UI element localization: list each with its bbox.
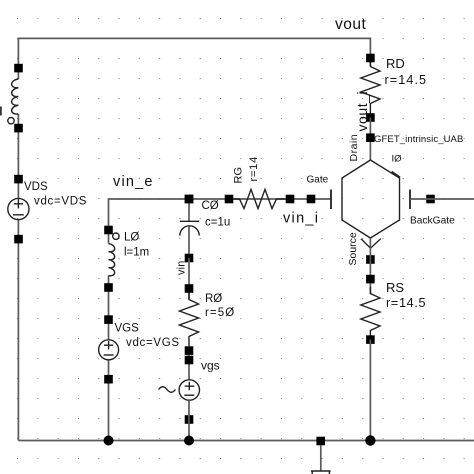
svg-text:vin_i: vin_i xyxy=(283,211,319,227)
svg-text:vdc=VGS: vdc=VGS xyxy=(126,337,180,349)
inductor L0 (l=1m) xyxy=(104,226,149,292)
wire: RD to FET drain xyxy=(369,118,371,161)
svg-text:RD: RD xyxy=(386,56,405,71)
svg-text:VGS: VGS xyxy=(115,323,140,335)
svg-text:Source: Source xyxy=(347,232,359,265)
svg-text:r=5Ø: r=5Ø xyxy=(205,307,235,319)
wire: vout drop to RD xyxy=(369,58,371,66)
voltage source VDS (vdc=VDS) xyxy=(8,175,87,244)
wire: FET source to RS xyxy=(369,238,371,294)
voltage source VGS (vdc=VGS) xyxy=(99,315,180,383)
resistor RD (r=14.5) xyxy=(361,54,427,122)
junction dot at RS branch xyxy=(365,435,375,445)
resistor RG (r=14) xyxy=(225,156,295,209)
svg-text:LØ: LØ xyxy=(124,232,139,244)
svg-text:vout_i: vout_i xyxy=(354,91,370,132)
svg-text:Gate: Gate xyxy=(307,175,329,186)
wire: ground rail xyxy=(18,440,474,442)
svg-text:CØ: CØ xyxy=(202,200,219,212)
svg-text:vgs: vgs xyxy=(201,359,220,373)
wire: L1 to VDS source xyxy=(17,114,19,199)
svg-text:Drain: Drain xyxy=(348,134,360,162)
junction pin on vin_e wire at C0 xyxy=(185,195,194,204)
resistor R0 (r=50) xyxy=(179,284,235,355)
wire: VGS source to ground rail xyxy=(108,360,110,441)
svg-text:vin: vin xyxy=(176,261,188,275)
ground symbol gnd xyxy=(311,437,331,474)
junction dot at VGS branch xyxy=(104,436,114,446)
inductor L1 (left column, partially labelled off-canvas) xyxy=(0,64,23,133)
svg-text:RG: RG xyxy=(233,167,245,184)
svg-text:r=14.5: r=14.5 xyxy=(385,73,428,87)
wire: backgate to right edge xyxy=(410,198,474,200)
transistor I0 GFET_intrinsic_UAB xyxy=(307,133,464,265)
junction dot at vgs branch xyxy=(184,436,194,446)
wire: vin_e net, horizontal to gate, corner down to L0 xyxy=(109,199,332,244)
wire: left column below VDS source to ground rail xyxy=(17,220,19,441)
wire: L0 bottom to VGS source xyxy=(108,276,110,340)
svg-text:vdc=VDS: vdc=VDS xyxy=(34,196,87,208)
svg-text:r=14.5: r=14.5 xyxy=(386,296,426,310)
svg-text:RØ: RØ xyxy=(205,293,222,305)
svg-text:GFET_intrinsic_UAB: GFET_intrinsic_UAB xyxy=(374,134,463,145)
capacitor C0 (c=1u) xyxy=(180,195,230,263)
svg-text:c=1u: c=1u xyxy=(205,217,230,229)
svg-text:l=1m: l=1m xyxy=(124,247,149,259)
wire: C0 to R0 xyxy=(188,258,190,299)
svg-text:VDS: VDS xyxy=(24,181,48,193)
wire: RS to ground rail xyxy=(369,340,371,441)
svg-text:RS: RS xyxy=(386,280,404,295)
svg-text:IØ: IØ xyxy=(392,154,403,165)
wire: vgs to ground rail xyxy=(188,400,190,440)
voltage source vgs (AC) xyxy=(159,355,220,424)
resistor RS (r=14.5) xyxy=(361,275,426,344)
wire: top rail from VDS branch to vout xyxy=(18,38,370,79)
svg-text:r=14: r=14 xyxy=(248,156,260,182)
svg-text:vin_e: vin_e xyxy=(113,174,154,190)
svg-text:BackGate: BackGate xyxy=(410,216,455,227)
svg-text:vout: vout xyxy=(335,16,366,33)
